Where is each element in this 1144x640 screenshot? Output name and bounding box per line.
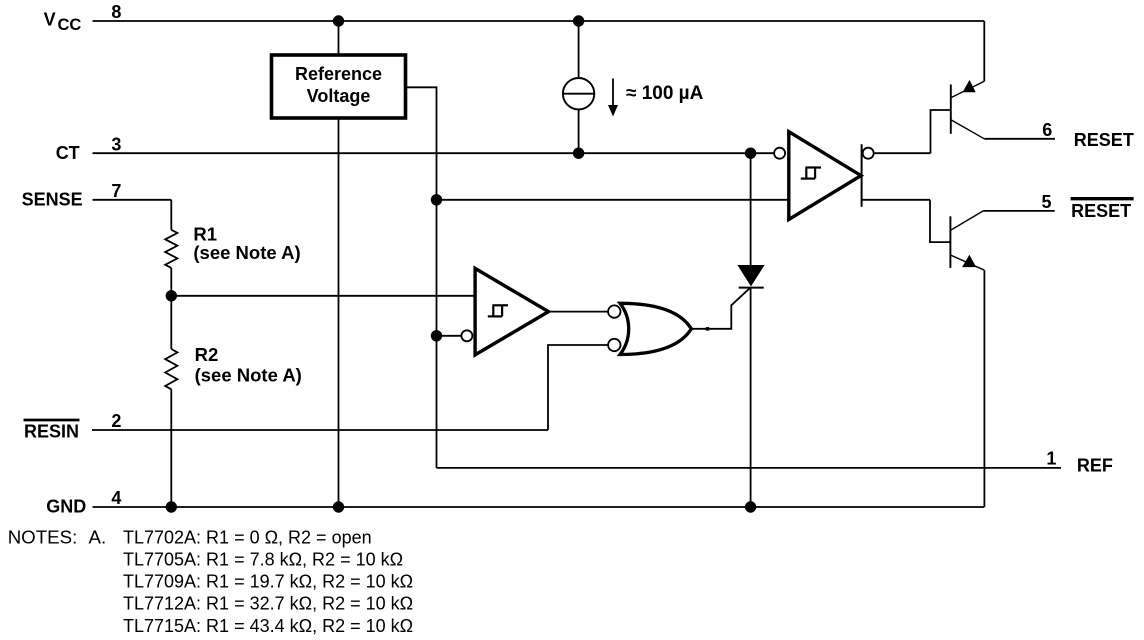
svg-text:TL7715A: R1 = 43.4 kΩ, R2 = 10: TL7715A: R1 = 43.4 kΩ, R2 = 10 kΩ <box>123 616 413 636</box>
svg-text:≈ 100 µA: ≈ 100 µA <box>626 83 704 104</box>
svg-text:RESET: RESET <box>1071 201 1131 221</box>
svg-text:TL7702A: R1 = 0 Ω, R2 = open: TL7702A: R1 = 0 Ω, R2 = open <box>123 528 372 548</box>
svg-text:7: 7 <box>111 181 121 201</box>
svg-text:TL7705A: R1 = 7.8 kΩ, R2 = 10: TL7705A: R1 = 7.8 kΩ, R2 = 10 kΩ <box>123 550 403 570</box>
svg-text:8: 8 <box>111 2 121 22</box>
svg-text:CC: CC <box>58 16 82 34</box>
svg-text:1: 1 <box>1046 449 1056 469</box>
svg-text:CT: CT <box>56 143 80 163</box>
svg-text:TL7712A: R1 = 32.7 kΩ, R2 = 10: TL7712A: R1 = 32.7 kΩ, R2 = 10 kΩ <box>123 594 413 614</box>
svg-text:(see Note A): (see Note A) <box>193 242 300 263</box>
svg-text:GND: GND <box>46 497 86 517</box>
svg-text:RESET: RESET <box>1074 130 1134 150</box>
svg-text:Reference: Reference <box>295 64 382 84</box>
svg-text:4: 4 <box>111 488 121 508</box>
svg-text:3: 3 <box>111 134 121 154</box>
svg-text:R2: R2 <box>195 344 219 365</box>
svg-text:SENSE: SENSE <box>22 190 83 210</box>
svg-text:V: V <box>44 9 56 29</box>
svg-text:A.: A. <box>89 527 107 548</box>
svg-text:6: 6 <box>1042 120 1052 140</box>
svg-text:TL7709A: R1 = 19.7 kΩ, R2 = 10: TL7709A: R1 = 19.7 kΩ, R2 = 10 kΩ <box>123 572 413 592</box>
svg-text:Voltage: Voltage <box>307 86 371 106</box>
svg-text:RESIN: RESIN <box>24 422 79 442</box>
svg-text:2: 2 <box>111 411 121 431</box>
svg-text:NOTES:: NOTES: <box>8 527 78 548</box>
svg-text:(see Note A): (see Note A) <box>195 365 302 386</box>
svg-text:5: 5 <box>1042 192 1052 212</box>
svg-text:REF: REF <box>1077 455 1113 475</box>
